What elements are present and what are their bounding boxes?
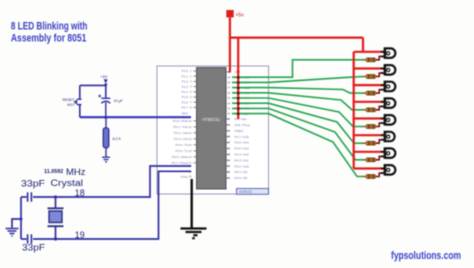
ground left [6, 229, 19, 237]
svg-text:27: 27 [227, 141, 230, 145]
svg-text:14: 14 [189, 143, 192, 147]
svg-text:P2.6 / A14: P2.6 / A14 [235, 141, 250, 145]
red power wires [230, 17, 384, 168]
svg-text:P1.0: P1.0 [182, 69, 189, 73]
+5V power symbol reset [100, 74, 108, 86]
LED D1 [381, 47, 395, 59]
svg-text:RESET: RESET [63, 98, 76, 102]
LED D7 [381, 147, 395, 159]
wire +5V node left [80, 84, 106, 86]
wire 19 row [33, 171, 191, 239]
svg-text:+5v: +5v [236, 12, 245, 18]
svg-text:21: 21 [227, 176, 230, 180]
crystal X1 [48, 197, 64, 239]
chip part label box [237, 189, 269, 195]
wire P0.6 to R LED7 [232, 108, 365, 159]
svg-text:P1.6: P1.6 [182, 100, 189, 104]
svg-text:38: 38 [227, 81, 230, 85]
wire P0.2 to R LED3 [232, 88, 365, 94]
reset wires [80, 85, 106, 118]
svg-text:fypsolutions.com: fypsolutions.com [391, 250, 461, 262]
wire P0.7 to R LED8 [232, 114, 365, 177]
node ground tee [20, 218, 23, 221]
svg-text:P2.1 / A9: P2.1 / A9 [235, 170, 248, 174]
red bus vertical [353, 52, 355, 169]
svg-text:29: 29 [227, 129, 230, 133]
capacitor C1 10uF [101, 98, 110, 117]
svg-text:35: 35 [227, 96, 230, 100]
resistor R5 [362, 125, 376, 129]
svg-text:P3.1 / TxD: P3.1 / TxD [173, 125, 188, 129]
svg-text:MHz: MHz [66, 167, 86, 177]
svg-text:P3.4 / T0: P3.4 / T0 [176, 143, 189, 147]
wire +5V node down to C1 [105, 85, 107, 98]
svg-text:KEY: KEY [67, 103, 75, 107]
svg-text:34: 34 [227, 101, 230, 105]
svg-text:8 LED Blinking with: 8 LED Blinking with [11, 21, 88, 33]
wire switch to rail [79, 105, 81, 117]
svg-text:P2.4 / A12: P2.4 / A12 [235, 153, 250, 157]
wire anode bus to D7 [354, 151, 385, 153]
wire anode bus to D6 [354, 134, 385, 136]
resistor R7 [362, 158, 376, 162]
wire P0.1 to R LED2 [232, 77, 365, 83]
svg-text:12: 12 [189, 131, 192, 135]
wire cathode R4 to D4 [376, 106, 384, 109]
LED D2 [381, 64, 395, 76]
svg-text:13: 13 [189, 137, 192, 141]
wire anode bus to D4 [354, 101, 385, 103]
LED D5 [381, 114, 395, 126]
power arrow on EA line [237, 71, 240, 76]
resistor R8 [362, 175, 376, 179]
capacitor C3 33pF [28, 234, 32, 243]
chip body AT89C51 [197, 68, 227, 190]
wire cathode R8 to D8 [376, 173, 384, 176]
svg-text:P2.7 / A15: P2.7 / A15 [235, 135, 250, 139]
svg-text:16: 16 [189, 155, 192, 159]
svg-text:P3.6 / Write: P3.6 / Write [172, 155, 188, 159]
svg-text:P3.0 / RxD: P3.0 / RxD [173, 119, 189, 123]
wire anode bus to D3 [354, 84, 385, 86]
wire down to switch [79, 85, 81, 98]
svg-text:PSEN: PSEN [235, 129, 243, 133]
svg-text:32: 32 [227, 112, 230, 116]
svg-text:26: 26 [227, 147, 230, 151]
svg-text:33pF: 33pF [21, 179, 45, 189]
svg-text:P3.5 / T1: P3.5 / T1 [176, 149, 189, 153]
resistor R9 8.2K [103, 117, 121, 156]
node rail-R2 [104, 116, 107, 119]
chip right pin labels [235, 70, 250, 180]
svg-text:P1.4: P1.4 [182, 90, 189, 94]
svg-text:P3.7 / Read: P3.7 / Read [172, 161, 189, 165]
svg-text:20: 20 [189, 175, 192, 179]
svg-text:P1.3: P1.3 [182, 85, 189, 89]
switch RESET KEY [74, 99, 81, 106]
svg-text:P1.7: P1.7 [182, 106, 189, 110]
resistor R6 [362, 141, 376, 145]
svg-text:10: 10 [189, 119, 192, 123]
svg-text:Crystal: Crystal [51, 178, 84, 188]
resistor R3 [362, 91, 376, 95]
green wires P0.x to resistors [232, 60, 365, 177]
svg-text:XTAL: XTAL [180, 175, 188, 179]
svg-text:ALE / Prog: ALE / Prog [235, 123, 250, 127]
node X1 top [54, 195, 57, 198]
wire P0.4 to R LED5 [232, 98, 365, 127]
left vertical wire [20, 197, 22, 239]
crystal circuit labels [21, 167, 86, 253]
title text [11, 21, 88, 45]
pin numbers right [227, 70, 230, 180]
chip left pin stubs [193, 71, 197, 163]
wire cathode R3 to D3 [376, 90, 384, 93]
svg-text:P3.3 / Int1: P3.3 / Int1 [174, 137, 188, 141]
svg-text:Assembly for 8051: Assembly for 8051 [11, 33, 87, 45]
svg-text:33pF: 33pF [22, 243, 45, 253]
pin numbers left [189, 69, 193, 179]
svg-text:25: 25 [227, 152, 230, 156]
reset rail to RST pin [80, 116, 191, 118]
LED D4 [381, 97, 395, 109]
svg-text:36: 36 [227, 91, 230, 95]
resistor R1 [362, 58, 376, 62]
svg-text:22: 22 [227, 170, 230, 174]
wire cathode R6 to D6 [376, 140, 384, 143]
wire cathode R1 to D1 [376, 56, 384, 59]
node X1 bottom [54, 237, 57, 240]
LED D6 [381, 131, 395, 143]
resistor R2 [362, 75, 376, 79]
chip left pin labels [172, 69, 189, 179]
wire anode bus to D1 [354, 51, 385, 53]
ground under chip [181, 229, 207, 239]
cap C2 left lead [21, 196, 27, 198]
cap C3 left lead [21, 238, 27, 240]
svg-text:AT89C51: AT89C51 [202, 117, 221, 122]
svg-text:37: 37 [227, 86, 230, 90]
chip ground wire [190, 179, 192, 228]
label RESET KEY [63, 98, 76, 107]
wire cathode R2 to D2 [376, 73, 384, 76]
wire P0.3 to R LED4 [232, 93, 365, 110]
svg-text:39: 39 [227, 75, 230, 79]
svg-text:8.2 K: 8.2 K [113, 137, 122, 141]
svg-text:23: 23 [227, 164, 230, 168]
svg-text:15: 15 [189, 149, 192, 153]
wire P0.0 to R LED1 [232, 60, 365, 77]
svg-text:RST: RST [182, 112, 188, 116]
wire anode bus to D8 [354, 167, 385, 169]
svg-text:EA / Vpp: EA / Vpp [235, 117, 247, 121]
svg-text:+5V: +5V [100, 74, 108, 79]
svg-text:P2.2 / A10: P2.2 / A10 [235, 164, 250, 168]
C1 polarity mark [98, 95, 101, 98]
svg-text:P1.1: P1.1 [182, 74, 189, 78]
wire anode bus to D2 [354, 67, 385, 69]
wire +5V horizontal top [230, 36, 363, 38]
junction marks where green rows cross EA line [237, 76, 240, 115]
svg-text:P2.5 / A13: P2.5 / A13 [235, 147, 250, 151]
svg-text:P3.2 / Int0: P3.2 / Int0 [174, 131, 188, 135]
wire 18 row [33, 166, 191, 197]
svg-text:P2.0 / A8: P2.0 / A8 [235, 176, 248, 180]
wire cathode R5 to D5 [376, 123, 384, 126]
svg-text:24: 24 [227, 158, 230, 162]
svg-text:30: 30 [227, 123, 230, 127]
wire cathode R7 to D7 [376, 156, 384, 159]
LED D8 [381, 164, 395, 176]
chip right pin stubs [226, 72, 230, 178]
chip outer box U1 [157, 66, 269, 194]
wire P0.5 to R LED6 [232, 103, 365, 143]
svg-text:P2.3 / A11: P2.3 / A11 [235, 158, 249, 162]
svg-text:33: 33 [227, 107, 230, 111]
wire feed down to LED row 1 [362, 38, 364, 52]
capacitor C2 33pF [28, 192, 32, 201]
wire to EA pin [237, 38, 239, 119]
svg-text:28: 28 [227, 135, 230, 139]
wire anode bus to D5 [354, 117, 385, 119]
svg-text:11.0592: 11.0592 [44, 169, 63, 175]
svg-text:AT89C51: AT89C51 [239, 190, 252, 194]
resistor R4 [362, 108, 376, 112]
LED D3 [381, 81, 395, 93]
svg-text:31: 31 [227, 117, 230, 121]
ground under R9 [102, 157, 110, 162]
svg-text:P1.5: P1.5 [182, 95, 189, 99]
svg-text:P1.2: P1.2 [182, 80, 189, 84]
crystal wires [12, 166, 191, 239]
svg-text:10 µF: 10 µF [114, 99, 124, 103]
+5V power symbol top [226, 10, 244, 18]
ground branch [12, 219, 21, 228]
wire +5V stem to Vcc [229, 17, 231, 72]
